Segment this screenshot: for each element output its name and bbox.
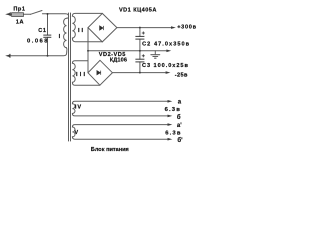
wire: left input top — [10, 13, 12, 15]
bridge rectifier VD2-VD5 diamond — [88, 60, 112, 85]
winding III with wires — [72, 61, 99, 85]
svg-text:а: а — [178, 99, 182, 105]
svg-text:-25в: -25в — [175, 73, 188, 79]
transformer T1 primary winding I bumps — [64, 18, 67, 48]
junction dots — [47, 13, 141, 74]
ground symbol — [154, 51, 156, 55]
svg-text:1А: 1А — [16, 20, 25, 26]
svg-text:б': б' — [177, 137, 183, 144]
output arrow a — [168, 100, 173, 103]
svg-text:С1: С1 — [38, 28, 46, 34]
common output arrow — [166, 50, 171, 53]
svg-text:Пр1: Пр1 — [13, 6, 25, 12]
svg-text:6.3в: 6.3в — [165, 130, 181, 136]
fuse FU1 body — [12, 13, 24, 17]
C2 top lead — [139, 28, 141, 37]
svg-text:I: I — [59, 34, 61, 40]
arrowheads — [5, 12, 176, 140]
diode inside VD1 — [100, 26, 104, 30]
winding II with wires to bridge VD1 — [72, 13, 102, 41]
C3 top lead — [139, 51, 141, 59]
output arrow a' — [168, 123, 173, 126]
svg-text:0.068: 0.068 — [27, 39, 49, 45]
C3 bottom lead — [139, 62, 141, 73]
svg-text:V: V — [74, 130, 78, 136]
svg-text:VD1 КЦ405А: VD1 КЦ405А — [119, 7, 157, 13]
wire: switch to transformer primary top — [42, 14, 68, 18]
-25v rail — [112, 72, 165, 74]
input arrow top — [5, 13, 10, 16]
svg-text:6.3в: 6.3в — [165, 107, 181, 113]
switch S1 blade — [31, 11, 43, 15]
input arrow bottom — [5, 55, 10, 58]
winding IV with output wires a / b — [72, 101, 167, 116]
capacitor C2 plates — [135, 36, 144, 39]
+300v arrow — [171, 26, 176, 29]
transformer core — [68, 13, 70, 141]
svg-text:Блок питания: Блок питания — [91, 147, 129, 153]
C2 bottom lead — [139, 39, 141, 51]
wire: fuse to switch — [23, 13, 30, 15]
svg-text:С3 100.0х25в: С3 100.0х25в — [142, 63, 189, 69]
svg-text:II: II — [78, 28, 85, 34]
capacitor C1 plates — [43, 35, 51, 37]
svg-text:а': а' — [177, 123, 182, 129]
winding V with output wires a' / b' — [72, 125, 167, 140]
svg-text:III: III — [76, 72, 87, 78]
bridge rectifier VD1 diamond — [88, 13, 117, 42]
svg-text:б: б — [177, 114, 181, 121]
wire: VD1 left vertex down to common junction and VD2-VD5 left vertex — [87, 28, 89, 73]
output arrow b — [168, 115, 173, 118]
+300v rail — [117, 27, 171, 29]
polarity plus C3 — [142, 54, 145, 57]
diode inside VD2-VD5 — [97, 71, 101, 75]
svg-text:+300в: +300в — [177, 25, 197, 31]
output arrow b' — [168, 138, 173, 141]
-25v arrow — [166, 71, 171, 74]
wire: bottom rail to primary bottom — [10, 48, 67, 56]
common rail — [88, 50, 166, 52]
svg-text:IV: IV — [75, 105, 82, 111]
svg-text:КД106: КД106 — [110, 58, 127, 64]
wire: C1 bottom to bottom rail — [47, 37, 49, 56]
capacitor C3 plates — [135, 59, 144, 62]
svg-text:С2 47.0х350в: С2 47.0х350в — [142, 41, 190, 47]
polarity plus C2 — [142, 32, 145, 35]
wire: C1 vertical drop — [47, 14, 49, 35]
